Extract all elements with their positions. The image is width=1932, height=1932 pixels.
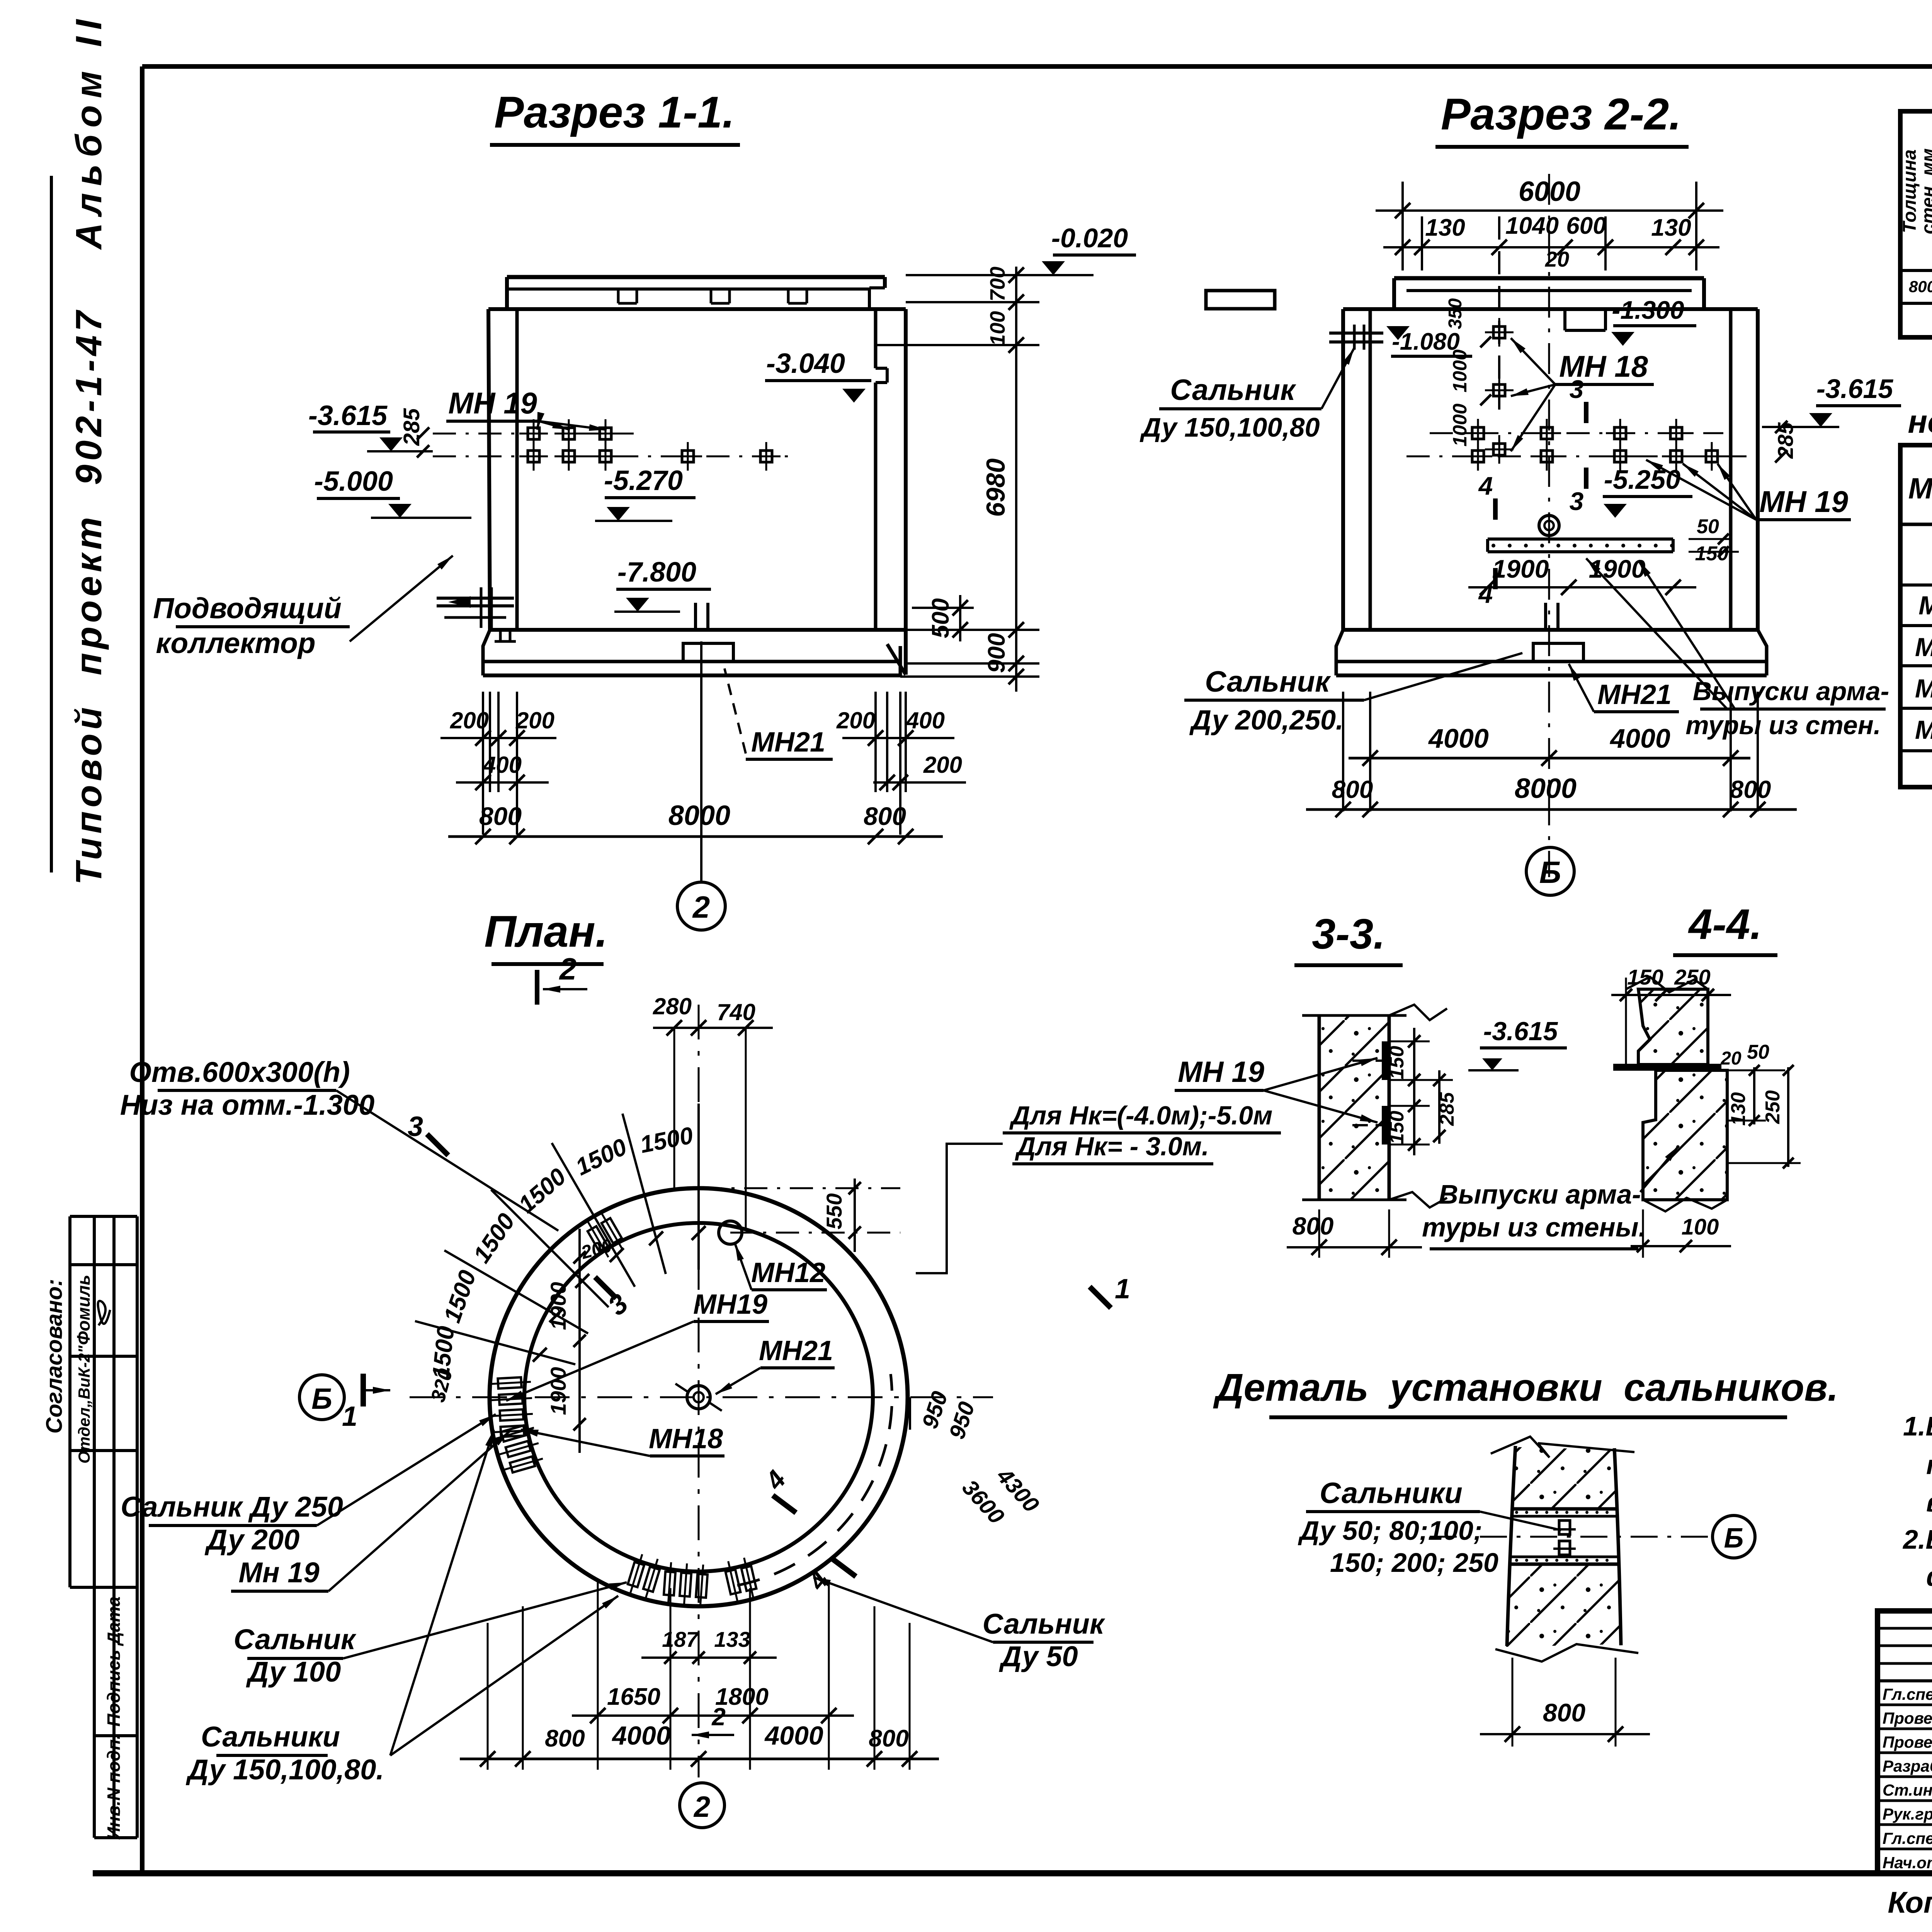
svg-text:1: 1 — [1115, 1274, 1130, 1304]
svg-text:4: 4 — [1478, 471, 1493, 500]
svg-text:Копировал Гордеева: Копировал Гордеева — [1888, 1885, 1932, 1919]
section 3-3 bottom dim 800 — [1287, 1209, 1422, 1258]
title block grid — [1878, 1611, 1932, 1873]
table Выборка сальников texts — [1900, 111, 1932, 304]
svg-text:133: 133 — [714, 1627, 750, 1651]
svg-text:1000: 1000 — [1449, 403, 1471, 446]
level mark -7.800 — [614, 557, 711, 612]
svg-text:Ду 200: Ду 200 — [204, 1524, 299, 1556]
dimension 1900 1900 — [1468, 554, 1696, 595]
svg-text:600: 600 — [1566, 213, 1606, 239]
section 4-4 bottom dim 100 — [1631, 1209, 1731, 1258]
svg-text:1900: 1900 — [1492, 554, 1549, 583]
svg-text:800: 800 — [864, 802, 906, 830]
svg-text:150: 150 — [1386, 1046, 1408, 1080]
svg-text:2: 2 — [559, 952, 577, 986]
svg-text:Разраб.: Разраб. — [1883, 1757, 1932, 1775]
svg-text:МН21: МН21 — [1597, 679, 1672, 710]
specification table title — [1908, 367, 1932, 440]
svg-text:Проверил: Проверил — [1883, 1709, 1932, 1727]
bottom margin texts — [1888, 1879, 1932, 1919]
svg-text:Подпись Дата: Подпись Дата — [104, 1597, 124, 1727]
svg-text:МН 19: МН 19 — [448, 386, 537, 420]
left margin edge line — [50, 176, 53, 872]
section 1-1 embedded plates MH19 row — [433, 419, 796, 471]
svg-text:400: 400 — [483, 752, 522, 778]
level -0.020 (top, between sections) — [1032, 223, 1136, 275]
svg-text:4-4.: 4-4. — [1688, 901, 1762, 948]
svg-text:Проверил: Проверил — [1883, 1733, 1932, 1751]
svg-text:МН 19: МН 19 — [1915, 674, 1932, 703]
svg-text:150: 150 — [1386, 1111, 1408, 1145]
svg-text:План.: План. — [484, 907, 608, 956]
level mark -3.615 (section 1-1) — [308, 400, 433, 457]
table Выборка сальников grid — [1900, 111, 1932, 337]
svg-text:Фомиль: Фомиль — [73, 1275, 94, 1345]
title block staff names — [1883, 1682, 1932, 1872]
svg-text:2: 2 — [693, 1791, 710, 1823]
svg-text:Мн 19: Мн 19 — [238, 1556, 319, 1588]
section 3 cut marks inside 2-2 — [1570, 375, 1586, 515]
level -3.615 (section 2-2 right) — [1762, 374, 1901, 463]
svg-text:проекте необходимо скорректи: проекте необходимо скорректировать табли… — [1926, 1450, 1932, 1480]
detail wall with gland — [1430, 1437, 1708, 1662]
svg-text:Ду 50; 80;100;: Ду 50; 80;100; — [1298, 1515, 1483, 1546]
plan radial dimension lines 1500 — [415, 1104, 706, 1381]
section 1-1 right dimension chain — [876, 267, 1094, 692]
plan axis bubble Б — [299, 1375, 344, 1420]
plan section flags 3 — [408, 1111, 634, 1321]
svg-text:740: 740 — [717, 999, 755, 1025]
svg-text:Марка: Марка — [1908, 472, 1932, 505]
section 1-1 axis bubble 2 — [677, 882, 725, 930]
plan label Мн 19 — [231, 1432, 509, 1591]
section 4-4 right dims — [1716, 1041, 1801, 1168]
specification table grid — [1900, 445, 1932, 787]
svg-text:Отв.600х300(h): Отв.600х300(h) — [129, 1056, 350, 1088]
svg-text:Отдел„ВиК-2": Отдел„ВиК-2" — [75, 1345, 93, 1464]
svg-text:МН19: МН19 — [693, 1289, 767, 1320]
svg-text:8000: 8000 — [1515, 773, 1577, 804]
section 2-2 axis bubble Б — [1526, 847, 1574, 895]
svg-text:Ст.инж.: Ст.инж. — [1883, 1781, 1932, 1799]
plan dimension 550 — [699, 1179, 900, 1252]
plan label Отв.600х300(h) — [120, 1056, 558, 1231]
svg-text:4000: 4000 — [764, 1721, 823, 1750]
svg-text:200: 200 — [923, 752, 962, 778]
svg-text:6980: 6980 — [981, 458, 1010, 517]
svg-text:4000: 4000 — [1609, 723, 1670, 753]
svg-text:200: 200 — [836, 707, 875, 733]
svg-text:Гл.спец.: Гл.спец. — [1883, 1829, 1932, 1847]
section 2-2 tank outline — [1336, 278, 1767, 675]
plan title — [484, 907, 608, 964]
svg-text:250: 250 — [1762, 1090, 1784, 1124]
svg-text:Гл.спец.ТС: Гл.спец.ТС — [1883, 1685, 1932, 1703]
plan label Сальник Ду 100 — [234, 1582, 627, 1688]
svg-text:Низ на отм.-1.300: Низ на отм.-1.300 — [120, 1089, 375, 1121]
detail labels Сальники — [1298, 1477, 1561, 1578]
svg-text:МН12: МН12 — [1918, 591, 1932, 620]
label MH19 with leaders — [446, 386, 607, 431]
svg-text:3-3.: 3-3. — [1312, 910, 1385, 958]
level -5.250 — [1603, 464, 1692, 518]
svg-text:Альбом II: Альбом II — [68, 13, 109, 250]
plan MH labels — [506, 1243, 835, 1456]
svg-text:Ду 50: Ду 50 — [998, 1640, 1078, 1672]
svg-text:Ду 150,100,80.: Ду 150,100,80. — [185, 1753, 384, 1786]
plan MH12 marker — [719, 1221, 742, 1244]
section 2-2 gland axis plates row — [1406, 419, 1747, 471]
svg-text:-3.615: -3.615 — [308, 400, 388, 431]
svg-text:130: 130 — [1651, 214, 1691, 241]
svg-text:-3.040: -3.040 — [766, 348, 845, 379]
plan right rotated dims 950 950 3600 4300 — [910, 1388, 1044, 1529]
section 4-4 wall corner — [1613, 977, 1727, 1211]
svg-text:200: 200 — [515, 707, 554, 733]
section 3-3 MH19 label — [1175, 1056, 1378, 1122]
svg-text:700: 700 — [986, 267, 1009, 301]
svg-text:МН12: МН12 — [751, 1257, 825, 1288]
plan center axes — [410, 1005, 993, 1777]
plan bottom dimensions — [460, 1582, 939, 1770]
svg-text:стен мм: стен мм — [1918, 148, 1932, 234]
svg-text:280: 280 — [653, 993, 692, 1019]
section 2-2 top dimensions 130 1040 600 130 — [1383, 213, 1719, 410]
svg-text:350: 350 — [1445, 298, 1466, 329]
plan section mark 2 top — [537, 952, 587, 1005]
svg-text:МН 18: МН 18 — [1915, 633, 1932, 662]
svg-text:800: 800 — [479, 802, 522, 830]
section 2-2 center axis line — [1548, 174, 1550, 877]
svg-text:Сальник Ду 250: Сальник Ду 250 — [121, 1491, 343, 1523]
plan label Для Нк — [916, 1101, 1281, 1273]
svg-text:800: 800 — [1332, 776, 1373, 803]
plan section flags 4 — [759, 1465, 856, 1596]
section 3-3 title — [1294, 910, 1403, 965]
svg-text:МН21: МН21 — [759, 1335, 833, 1366]
svg-text:Сальники: Сальники — [201, 1721, 340, 1753]
svg-text:туры из стен.: туры из стен. — [1685, 711, 1881, 740]
svg-text:50: 50 — [1747, 1041, 1769, 1063]
level -1.080 (section 2-2 left) — [1386, 326, 1472, 356]
svg-text:Сальник: Сальник — [1170, 374, 1296, 406]
plan center marker MH21 — [675, 1384, 722, 1411]
svg-text:Сальник: Сальник — [983, 1608, 1105, 1640]
section 3-3 wall — [1302, 1005, 1447, 1207]
svg-text:150; 200; 250: 150; 200; 250 — [1330, 1548, 1498, 1578]
section 2-2 platform — [1488, 515, 1739, 565]
svg-text:250: 250 — [1674, 965, 1710, 989]
plan label Сальник Ду 250 / Ду 200 — [121, 1414, 496, 1556]
section 3-3 right dimensions — [1386, 1028, 1458, 1155]
svg-text:550: 550 — [822, 1193, 846, 1229]
svg-text:3: 3 — [1570, 487, 1584, 515]
section 2-2 bottom dimensions — [1306, 692, 1797, 817]
detail bottom dim 800 — [1480, 1658, 1650, 1747]
svg-text:Для Нк=(-4.0м);-5.0м: Для Нк=(-4.0м);-5.0м — [1009, 1101, 1273, 1130]
section 1-1 bottom dimension chains — [440, 641, 966, 881]
detail axis bubble Б — [1713, 1515, 1755, 1558]
svg-text:2.Выпуски из стены для пло: 2.Выпуски из стены для площадок учтены в… — [1902, 1524, 1932, 1554]
svg-text:Разрез 1-1.: Разрез 1-1. — [494, 88, 735, 137]
label выпуски арматуры из стены — [1422, 1146, 1679, 1249]
svg-text:МН18: МН18 — [649, 1423, 723, 1454]
section 4-4 top dims 150 250 — [1611, 965, 1731, 1066]
svg-text:Б: Б — [311, 1383, 332, 1415]
left margin vertical title: Типовой проект 902-1-47 Альбом II — [68, 13, 109, 885]
label Сальник Ду 150,100,80 — [1139, 348, 1354, 442]
svg-text:200: 200 — [450, 707, 489, 733]
label MH 19 (section 2-2) with leaders — [1646, 460, 1851, 520]
level mark -3.040 — [765, 348, 871, 403]
svg-text:800: 800 — [1293, 1212, 1334, 1240]
svg-text:Сальники: Сальники — [1320, 1477, 1463, 1510]
svg-text:100: 100 — [1682, 1214, 1719, 1240]
svg-text:Согласовано:: Согласовано: — [42, 1279, 67, 1434]
section 3-3 level -3.615 — [1468, 1017, 1567, 1070]
svg-text:1650: 1650 — [607, 1684, 660, 1710]
svg-text:1.В зависимости от принятых: 1.В зависимости от принятых марок насосо… — [1903, 1411, 1932, 1441]
label Сальник Ду 200,250 — [1184, 653, 1522, 736]
svg-text:выборки сальников.: выборки сальников. — [1926, 1487, 1932, 1517]
svg-text:Нач.отд.: Нач.отд. — [1883, 1854, 1932, 1872]
svg-text:Инв.N подп.: Инв.N подп. — [104, 1735, 124, 1840]
left margin approval stamp table — [42, 1216, 137, 1840]
svg-text:2: 2 — [692, 890, 710, 924]
svg-text:фикации на листе КЖ-11.: фикации на листе КЖ-11. — [1926, 1561, 1932, 1592]
svg-text:Для Нк= - 3.0м.: Для Нк= - 3.0м. — [1015, 1132, 1209, 1161]
svg-text:Ду 100: Ду 100 — [246, 1656, 341, 1688]
svg-text:4000: 4000 — [611, 1721, 670, 1750]
svg-text:3: 3 — [1570, 375, 1584, 403]
svg-text:4000: 4000 — [1428, 723, 1489, 753]
plan label Сальники Ду 150,100,80 — [185, 1430, 618, 1786]
svg-text:500: 500 — [927, 598, 954, 638]
label подводящий коллектор — [153, 556, 453, 659]
level mark -5.000 — [314, 466, 471, 518]
svg-text:Сальник: Сальник — [1205, 665, 1331, 698]
svg-text:187: 187 — [662, 1627, 699, 1651]
section 4-4 title — [1673, 901, 1777, 955]
plan axis bubble 2 bottom — [680, 1783, 724, 1828]
svg-text:1: 1 — [342, 1401, 357, 1432]
plan label Сальник Ду 50 — [813, 1577, 1105, 1672]
label MH21 (section 1-1) — [724, 668, 833, 759]
svg-text:-5.250: -5.250 — [1604, 464, 1681, 495]
svg-text:400: 400 — [906, 707, 945, 733]
section 2-2 MH18 embedded plates column — [1445, 298, 1514, 464]
svg-text:Типовой проект 902-1-47: Типовой проект 902-1-47 — [68, 307, 109, 885]
svg-text:6000: 6000 — [1519, 176, 1580, 207]
section 1-1 inlet pipe (подводящий коллектор) — [437, 587, 516, 641]
svg-text:800: 800 — [545, 1725, 585, 1752]
svg-text:900: 900 — [983, 633, 1010, 673]
level mark -5.270 — [595, 465, 696, 521]
svg-text:-0.020: -0.020 — [1051, 223, 1128, 253]
notes text — [1902, 1411, 1932, 1592]
svg-text:Подводящий: Подводящий — [153, 592, 342, 624]
section 1-1 title — [490, 88, 740, 145]
svg-text:Сальник: Сальник — [234, 1623, 357, 1655]
svg-text:Б: Б — [1724, 1523, 1744, 1554]
section 2-2 title — [1435, 90, 1689, 147]
svg-text:Деталь установки сальников.: Деталь установки сальников. — [1213, 1366, 1838, 1409]
svg-text:2: 2 — [711, 1703, 726, 1731]
svg-text:туры из стены.: туры из стены. — [1422, 1212, 1646, 1242]
svg-text:Ду 200,250.: Ду 200,250. — [1189, 705, 1344, 736]
section 1-1 tank outline — [483, 277, 906, 675]
svg-text:150: 150 — [1627, 965, 1663, 989]
svg-text:коллектор: коллектор — [156, 627, 315, 659]
svg-text:1040: 1040 — [1505, 213, 1559, 239]
svg-text:Ду 150,100,80: Ду 150,100,80 — [1139, 412, 1320, 442]
svg-text:285: 285 — [1436, 1092, 1458, 1126]
svg-text:800: 800 — [1909, 277, 1932, 296]
svg-text:150: 150 — [1695, 543, 1729, 565]
svg-text:МН 19: МН 19 — [1759, 485, 1848, 519]
level -1.300 (section 2-2 top) — [1611, 296, 1696, 346]
svg-text:20: 20 — [1720, 1048, 1742, 1069]
label MH 18 with leaders — [1511, 338, 1654, 451]
plan section flags 1 — [342, 1274, 1130, 1432]
svg-text:-3.615: -3.615 — [1816, 374, 1894, 404]
svg-text:МН21: МН21 — [751, 727, 825, 758]
svg-text:-7.800: -7.800 — [617, 557, 696, 588]
svg-text:8000: 8000 — [668, 800, 730, 831]
section 4 cut marks inside 2-2 — [1478, 471, 1495, 608]
svg-text:-5.270: -5.270 — [604, 465, 683, 496]
svg-text:285: 285 — [399, 408, 424, 446]
plan inner dimensions 1900/1900/320 — [427, 1229, 614, 1453]
section 2-2 top dimension 6000 — [1376, 176, 1723, 270]
svg-text:-3.615: -3.615 — [1483, 1017, 1558, 1046]
svg-text:130: 130 — [1425, 214, 1465, 241]
svg-text:800: 800 — [1543, 1698, 1585, 1727]
svg-text:Разрез 2-2.: Разрез 2-2. — [1441, 90, 1681, 139]
svg-text:Рук.груп.: Рук.груп. — [1883, 1805, 1932, 1823]
svg-text:Толщина: Толщина — [1900, 150, 1920, 233]
section 2-2 floating rectangle left — [1206, 291, 1275, 309]
svg-text:100: 100 — [986, 311, 1009, 346]
label MH21 (section 2-2) — [1569, 664, 1679, 712]
label выпуски арматуры из стен — [1586, 558, 1889, 740]
plan tank rings — [490, 1188, 908, 1606]
specification table texts — [1908, 461, 1932, 745]
detail title — [1213, 1366, 1838, 1417]
svg-text:ной схеме, расположенной на: ной схеме, расположенной на листе. — [1908, 403, 1932, 440]
plan gland clusters on wall — [488, 1210, 759, 1607]
svg-text:20: 20 — [1545, 247, 1569, 271]
svg-text:1900: 1900 — [546, 1367, 570, 1415]
svg-text:Выпуски арма-: Выпуски арма- — [1439, 1179, 1641, 1209]
svg-text:МН 19: МН 19 — [1178, 1056, 1264, 1088]
svg-text:МН 21: МН 21 — [1915, 715, 1932, 745]
svg-text:1900: 1900 — [546, 1282, 570, 1330]
plan top dimensions 280 740 — [653, 993, 773, 1229]
svg-text:-1.300: -1.300 — [1612, 296, 1684, 324]
svg-text:50: 50 — [1697, 515, 1719, 538]
section 2-2 left pipe gland — [1329, 325, 1383, 350]
svg-text:Б: Б — [1539, 855, 1561, 889]
svg-text:-5.000: -5.000 — [314, 466, 393, 497]
svg-text:800: 800 — [1730, 776, 1771, 803]
